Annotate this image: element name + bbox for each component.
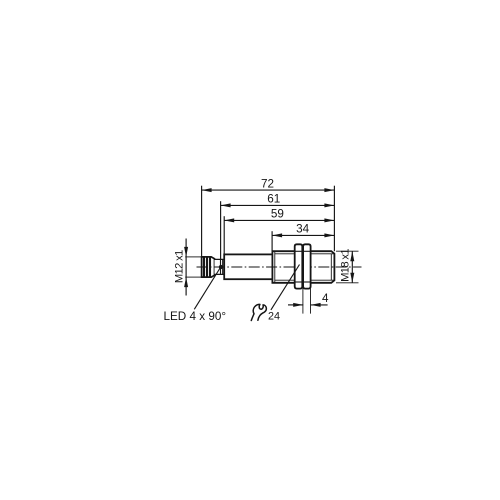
dim M18 vertical line with inside arrows	[351, 251, 353, 283]
dim 34: extension line	[271, 231, 273, 251]
dim 72: extension lines	[201, 186, 203, 278]
LED dot	[219, 265, 223, 269]
LED ring groove lines	[220, 259, 222, 274]
svg-text:M18 x1: M18 x1	[339, 249, 351, 282]
svg-text:24: 24	[268, 311, 280, 323]
chamfer vertical at right end	[330, 254, 332, 280]
centerline	[197, 266, 362, 268]
dim 4 line with outside arrows	[288, 304, 303, 306]
wrench leader line	[271, 265, 300, 310]
dim 34 line	[272, 234, 334, 236]
thread root lines	[275, 253, 334, 255]
dim M12: extension lines	[185, 256, 201, 258]
svg-text:4: 4	[322, 292, 329, 305]
M12 connector body	[202, 257, 215, 277]
hex nut 1	[295, 244, 303, 288]
hex nut 2	[303, 244, 311, 288]
neck between connector and housing	[215, 259, 225, 274]
M12 thread lines	[203, 257, 205, 277]
dim 61: extension line	[220, 201, 222, 259]
svg-text:M12 x1: M12 x1	[173, 250, 185, 283]
dim 61 line	[221, 204, 335, 206]
M18 threaded barrel	[272, 251, 334, 283]
dim 59 line	[224, 219, 334, 221]
svg-text:59: 59	[271, 208, 284, 221]
dim M18: extension lines	[336, 250, 359, 252]
dim 72 line	[202, 189, 335, 191]
svg-text:34: 34	[296, 223, 310, 236]
svg-text:LED 4 x 90°: LED 4 x 90°	[164, 310, 227, 323]
dim M12 vertical line and outside arrows	[185, 257, 187, 277]
LED leader line	[194, 267, 220, 309]
dim 59: extension line	[223, 216, 225, 254]
svg-text:72: 72	[261, 177, 274, 190]
thread start vertical	[274, 251, 276, 283]
svg-text:61: 61	[267, 193, 280, 206]
main housing	[224, 254, 272, 279]
dim 4: extension lines below nut 2	[302, 289, 304, 314]
wrench icon	[251, 304, 266, 320]
